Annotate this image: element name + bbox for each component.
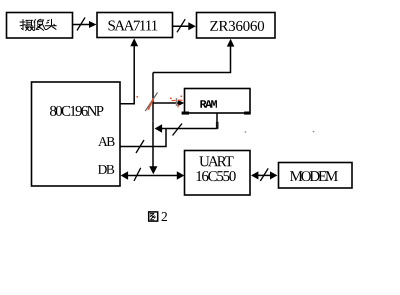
block 摄像头 (camera)	[7, 13, 73, 39]
noise speck	[313, 131, 315, 133]
label 像	[34, 19, 45, 30]
wire AB to RAM line	[120, 129, 166, 147]
grey tick before arrow	[176, 98, 178, 106]
arrowhead into RAM	[178, 100, 185, 106]
wire bus to RAM	[153, 102, 178, 104]
arrowhead into ZR36060	[188, 22, 196, 30]
tick bottom-left of RAM	[182, 112, 189, 115]
label AB	[98, 137, 114, 146]
label RAM	[200, 100, 217, 108]
caption 图 2	[149, 212, 158, 221]
bus slash	[173, 124, 183, 136]
bus slash	[177, 19, 185, 32]
bus slash	[136, 140, 144, 153]
wire RAM down to bus (left arrow)	[162, 113, 217, 129]
arrowhead down onto DB line	[149, 166, 157, 174]
wire SAA7111 to ZR36060	[173, 25, 189, 27]
red annotation slash	[148, 98, 153, 110]
wire bus vertical from ZR36060 branch	[152, 73, 154, 167]
label MODEM	[290, 171, 338, 181]
label DB	[98, 165, 114, 174]
block 80C196NP	[32, 82, 121, 186]
wire 80C196NP to SAA7111 (up arrow)	[120, 46, 134, 104]
wire UART to MODEM (double arrow)	[257, 174, 272, 176]
block UART 16C550	[185, 151, 251, 196]
label figure number 2	[162, 212, 167, 221]
wire camera to SAA7111	[73, 24, 90, 26]
bus slash	[134, 168, 141, 181]
red annotation marks near RAM arrow	[172, 100, 185, 108]
wire DB bus to UART (double arrow)	[128, 175, 177, 177]
bus slash	[260, 168, 268, 181]
tick bottom-right of RAM	[244, 112, 250, 115]
block SAA7111	[97, 13, 173, 38]
label SAA7111	[109, 20, 158, 30]
wire bus to ZR36060 (up arrow)	[153, 46, 231, 73]
grey slash on bus	[145, 93, 157, 112]
label 头	[45, 19, 56, 29]
bus slash	[77, 18, 85, 31]
label 16C550	[197, 171, 236, 181]
noise speck	[245, 131, 247, 133]
red dots	[137, 96, 196, 107]
block MODEM	[279, 163, 353, 189]
arrowhead into SAA7111	[89, 21, 97, 28]
block RAM	[185, 89, 251, 114]
label UART	[199, 156, 233, 166]
label 80C196NP	[50, 106, 103, 116]
junction blob under RAM stub	[216, 122, 219, 129]
label 摄	[20, 20, 34, 31]
block ZR36060	[197, 13, 276, 39]
blue speck	[153, 121, 154, 122]
label ZR36060	[210, 21, 264, 31]
